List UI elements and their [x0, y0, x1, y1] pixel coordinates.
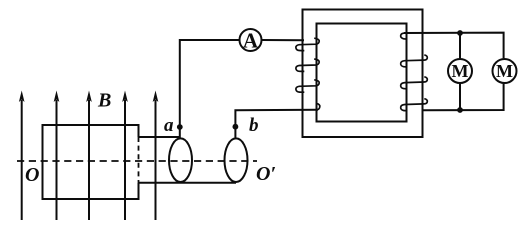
- wire: ammeter to transformer primary top: [262, 39, 304, 41]
- wire: motor 1 top lead: [459, 33, 461, 58]
- wire: secondary bottom bus to motors: [424, 84, 504, 111]
- slip ring a (ellipse): [169, 138, 192, 182]
- junction dot bottom: [457, 107, 463, 113]
- svg-text:O: O: [25, 164, 39, 186]
- slip ring b (ellipse): [225, 138, 248, 182]
- arrowhead 1: [19, 91, 25, 103]
- svg-text:O′: O′: [256, 163, 276, 185]
- terminal dot b: [233, 124, 239, 130]
- motor M1 circle: [448, 59, 472, 83]
- field arrow line 2: [56, 100, 58, 220]
- arrowhead 5: [153, 91, 159, 103]
- transformer core outer rectangle: [303, 10, 423, 138]
- wire: motor 1 bottom lead: [459, 84, 461, 110]
- wire: secondary top bus to motors: [404, 33, 504, 59]
- motor M2 circle: [493, 59, 517, 83]
- field arrow line 3: [88, 100, 90, 220]
- junction dot top: [457, 30, 463, 36]
- field arrow line 1: [21, 100, 23, 220]
- arrowhead 4: [122, 91, 128, 103]
- svg-text:M: M: [496, 61, 513, 81]
- transformer core inner rectangle: [317, 24, 407, 122]
- terminal dot a: [177, 124, 183, 130]
- svg-text:A: A: [243, 29, 259, 53]
- coil rectangle (armature loop): [43, 125, 139, 199]
- svg-text:B: B: [97, 90, 111, 112]
- ammeter A circle: [240, 29, 262, 51]
- transformer secondary winding: [401, 33, 428, 111]
- rotation axis OO' (dashed): [17, 160, 257, 162]
- wire: coil bottom end to slip ring b: [139, 182, 237, 184]
- wire: brush a up and to ammeter: [180, 40, 239, 138]
- transformer primary winding: [296, 38, 320, 109]
- svg-text:M: M: [452, 61, 469, 81]
- field arrow line 5: [155, 100, 157, 220]
- svg-text:b: b: [249, 115, 259, 136]
- arrowhead 2: [54, 91, 60, 103]
- wire: coil top end to slip ring a: [139, 136, 181, 138]
- field arrow line 4: [124, 100, 126, 220]
- wire: brush b up and right to transformer primary bottom: [235, 110, 318, 138]
- arrowhead 3: [86, 91, 92, 103]
- svg-text:a: a: [164, 115, 174, 136]
- coil rectangle hidden right edge (dashed): [138, 137, 140, 183]
